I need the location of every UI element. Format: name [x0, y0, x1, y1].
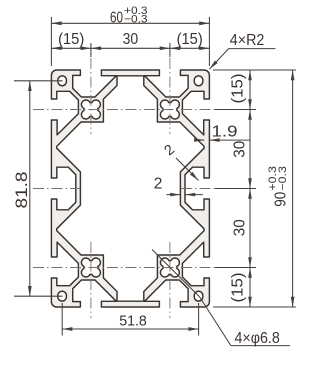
svg-text:4×φ6.8: 4×φ6.8 [235, 330, 280, 347]
svg-text:30: 30 [123, 31, 139, 48]
svg-text:60: 60 [110, 9, 123, 26]
svg-text:30: 30 [231, 219, 248, 236]
svg-text:(15): (15) [177, 31, 203, 48]
svg-text:81.8: 81.8 [13, 172, 31, 209]
svg-text:90: 90 [273, 191, 290, 206]
svg-text:(15): (15) [230, 74, 247, 104]
svg-text:1.9: 1.9 [212, 123, 238, 140]
svg-text:2: 2 [154, 176, 163, 193]
svg-text:−0.3: −0.3 [277, 166, 289, 191]
svg-text:4×R2: 4×R2 [230, 32, 265, 49]
svg-text:(15): (15) [58, 31, 84, 48]
svg-text:(15): (15) [230, 273, 247, 303]
svg-text:30: 30 [231, 140, 248, 157]
svg-text:−0.3: −0.3 [124, 14, 148, 26]
svg-text:51.8: 51.8 [119, 313, 147, 330]
